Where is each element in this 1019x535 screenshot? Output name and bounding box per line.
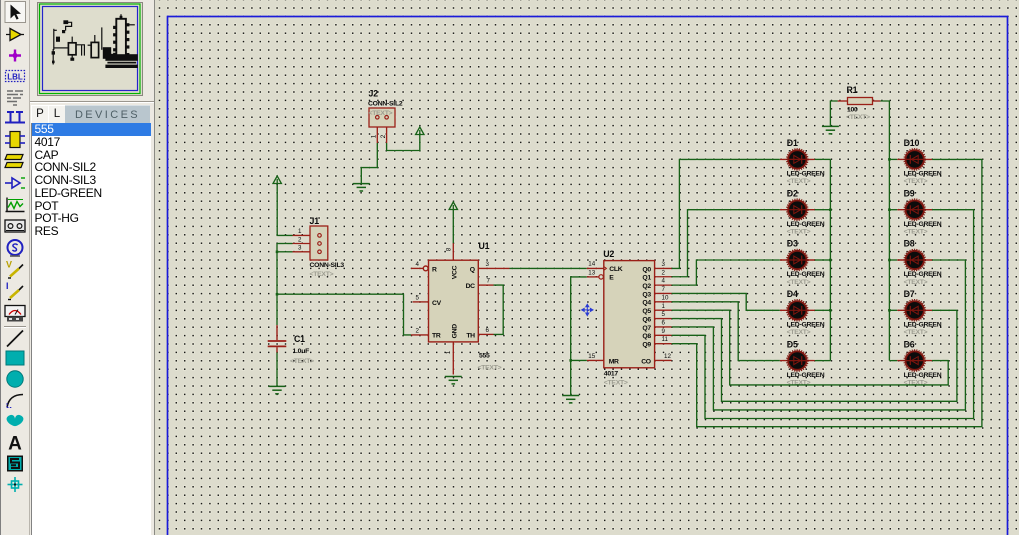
- svg-text:Q9: Q9: [642, 342, 651, 349]
- svg-text:5: 5: [662, 311, 666, 318]
- svg-text:U2: U2: [603, 249, 614, 259]
- svg-text:7: 7: [487, 278, 491, 285]
- svg-text:V: V: [6, 260, 12, 270]
- svg-text:D6: D6: [904, 339, 915, 349]
- toolbar instrument tool: [5, 306, 25, 322]
- LED D10: [897, 149, 932, 170]
- svg-text:MR: MR: [609, 358, 619, 365]
- U2 Q1 lead: [655, 276, 672, 278]
- svg-text:<TEXT>: <TEXT>: [787, 279, 811, 286]
- U2 CLK clock symbol: [604, 267, 607, 271]
- LED D3: [780, 249, 815, 270]
- toolbar bus tool: [5, 112, 25, 123]
- U2 Q6 lead: [655, 318, 672, 320]
- svg-text:LED-GREEN: LED-GREEN: [904, 271, 942, 278]
- U1 CV lead: [413, 301, 429, 303]
- ground R1: [822, 126, 839, 133]
- svg-text:LED-GREEN: LED-GREEN: [787, 271, 825, 278]
- wire U2 MR stub: [571, 359, 587, 361]
- LED D1: [780, 149, 815, 170]
- U2 CO lead: [655, 359, 672, 361]
- svg-text:U1: U1: [479, 241, 490, 251]
- ground U1: [445, 377, 462, 384]
- U1 DC lead: [478, 284, 493, 286]
- J2 pin2 lead: [386, 127, 388, 143]
- overview mini schematic: [52, 14, 138, 68]
- svg-text:14: 14: [588, 261, 595, 268]
- svg-text:J1: J1: [310, 216, 320, 226]
- wire Q8 to D7: [672, 210, 974, 419]
- wire Q4 to D5: [672, 302, 780, 361]
- svg-text:6: 6: [486, 327, 490, 334]
- U2 Q9 lead: [655, 343, 672, 345]
- svg-text:3: 3: [486, 261, 490, 268]
- svg-text:D9: D9: [904, 188, 915, 198]
- wire left LED cathode bus: [829, 159, 831, 360]
- toolbar junction dot tool: [9, 50, 21, 62]
- svg-text:LED-GREEN: LED-GREEN: [787, 372, 825, 379]
- svg-text:LBL: LBL: [7, 73, 23, 82]
- U2 Q7 lead: [655, 326, 672, 328]
- J1 pin2 lead: [293, 243, 311, 245]
- toolbar marker tool: [8, 477, 23, 492]
- U2 Q2 lead: [655, 284, 672, 286]
- wire Q2 to D3: [672, 260, 780, 285]
- U2 CLK lead: [587, 267, 604, 269]
- svg-text:Q8: Q8: [642, 333, 651, 340]
- svg-text:LED-GREEN: LED-GREEN: [787, 171, 825, 178]
- svg-text:2: 2: [298, 236, 302, 243]
- wire D2 cathode: [815, 209, 831, 211]
- wire Q6 to D9: [672, 310, 957, 401]
- svg-text:D5: D5: [787, 339, 798, 349]
- LED D8: [897, 249, 932, 270]
- sheet border: [168, 17, 1008, 535]
- junction cathode bus D3: [829, 259, 832, 262]
- U2 Q5 lead: [655, 309, 672, 311]
- wire Q3 to D4: [672, 293, 780, 310]
- toolbar 2d text tool: [8, 434, 22, 455]
- svg-text:<TEXT>: <TEXT>: [787, 329, 811, 336]
- U2 E lead: [587, 276, 599, 278]
- ground C1: [269, 386, 286, 393]
- U2 Q8 lead: [655, 334, 672, 336]
- toolbar 2d arc tool: [7, 395, 23, 408]
- svg-text:<TEXT>: <TEXT>: [604, 379, 628, 386]
- toolbar device pin tool: [5, 178, 25, 188]
- svg-text:3: 3: [298, 245, 302, 252]
- svg-text:D2: D2: [787, 188, 798, 198]
- junction R1 bus D10: [888, 158, 891, 161]
- svg-text:Q3: Q3: [642, 291, 651, 298]
- wire D10 left stub: [889, 158, 897, 160]
- overview green frame: [40, 4, 141, 94]
- power arrow J1: [273, 176, 281, 184]
- svg-text:CONN-SIL2: CONN-SIL2: [368, 101, 403, 108]
- connector J1: [310, 226, 328, 260]
- svg-text:11: 11: [662, 336, 669, 343]
- svg-text:Q2: Q2: [642, 283, 651, 290]
- svg-text:DC: DC: [466, 283, 476, 290]
- svg-text:<TEXT>: <TEXT>: [904, 178, 928, 185]
- svg-text:GND: GND: [451, 324, 458, 339]
- svg-text:Q7: Q7: [642, 325, 651, 332]
- svg-text:1: 1: [445, 350, 452, 354]
- svg-text:LED-GREEN: LED-GREEN: [904, 322, 942, 329]
- wire R1 to LED anode bus: [880, 101, 889, 361]
- svg-text:R1: R1: [847, 85, 858, 95]
- toolbar symbol tool: [7, 456, 23, 472]
- svg-text:4017: 4017: [604, 371, 619, 378]
- wire Q7 to D8: [672, 260, 966, 410]
- svg-text:5: 5: [416, 294, 420, 301]
- wire Q5 to D10: [672, 310, 949, 385]
- R1 left lead: [838, 100, 848, 102]
- LED D9: [897, 199, 932, 220]
- U1 TR lead: [411, 334, 429, 336]
- svg-text:D1: D1: [787, 138, 798, 148]
- wire U1 Q to U2 CLK: [510, 267, 587, 269]
- svg-text:4: 4: [416, 261, 420, 268]
- svg-text:Q1: Q1: [642, 275, 651, 282]
- capacitor C1: [268, 325, 287, 352]
- P button: [31, 105, 49, 125]
- wire J1 pin2: [277, 243, 293, 245]
- svg-text:D3: D3: [787, 239, 798, 249]
- svg-text:9: 9: [662, 328, 666, 335]
- svg-text:C1: C1: [294, 334, 305, 344]
- svg-text:10: 10: [662, 294, 669, 301]
- resistor R1: [848, 98, 873, 105]
- svg-text:4: 4: [662, 278, 666, 285]
- U2 MR lead: [587, 359, 604, 361]
- junction cathode bus D4: [829, 309, 832, 312]
- R1 right lead: [873, 100, 881, 102]
- svg-text:R: R: [432, 266, 437, 273]
- wire U2 E to ground net: [571, 277, 587, 395]
- U2 Q4 lead: [655, 301, 672, 303]
- junction J1 pin3 node: [276, 251, 279, 254]
- svg-text:100: 100: [847, 107, 858, 114]
- U1 Q lead: [478, 267, 509, 269]
- wire D5 cathode: [815, 360, 831, 362]
- op-amp U1 555 body: [429, 260, 479, 342]
- toolbar text script tool: [7, 91, 23, 105]
- svg-text:1: 1: [298, 228, 302, 235]
- svg-text:LED-GREEN: LED-GREEN: [787, 221, 825, 228]
- wire U1 VCC to power: [452, 210, 454, 243]
- wire Q1 to D2: [672, 210, 780, 277]
- svg-text:1: 1: [371, 134, 378, 138]
- IC U2 4017 body: [604, 261, 655, 368]
- LED D5: [780, 350, 815, 371]
- wire Q0 to D1: [672, 159, 780, 268]
- svg-text:VCC: VCC: [451, 265, 458, 279]
- svg-text:7: 7: [662, 286, 666, 293]
- wire J2 pin2 to power: [387, 135, 420, 151]
- svg-text:1: 1: [662, 303, 666, 310]
- junction TR branch node: [276, 293, 279, 296]
- svg-text:2: 2: [662, 269, 666, 276]
- svg-text:<TEXT>: <TEXT>: [846, 114, 870, 121]
- wire D3 cathode: [815, 259, 831, 261]
- wire Q9 to D6: [672, 159, 982, 426]
- toolbar 2d circle tool: [7, 371, 23, 387]
- LED D7: [897, 300, 932, 321]
- LED D2: [780, 199, 815, 220]
- svg-text:<TEXT>: <TEXT>: [904, 279, 928, 286]
- power arrow J2: [416, 127, 424, 135]
- toolbar select arrow: [5, 2, 26, 23]
- U1 TH lead: [478, 333, 493, 335]
- wire J1 pin3: [277, 251, 293, 253]
- wire J1 to C1 vertical: [276, 244, 278, 326]
- svg-text:1.0uF: 1.0uF: [293, 348, 310, 355]
- L button: [48, 105, 66, 125]
- svg-text:D7: D7: [904, 289, 915, 299]
- svg-text:12: 12: [664, 353, 671, 360]
- svg-text:Q0: Q0: [642, 266, 651, 273]
- svg-text:15: 15: [588, 353, 595, 360]
- svg-text:CLK: CLK: [609, 266, 622, 273]
- svg-text:Q5: Q5: [642, 308, 651, 315]
- LED D6: [897, 350, 932, 371]
- wire D8 left stub: [889, 259, 897, 261]
- junction R1 bus D7: [888, 309, 891, 312]
- svg-text:<TEXT>: <TEXT>: [290, 358, 314, 365]
- toolbar component tool: [5, 132, 25, 148]
- svg-text:<TEXT>: <TEXT>: [787, 229, 811, 236]
- svg-text:LED-GREEN: LED-GREEN: [787, 322, 825, 329]
- wire D6 left stub: [889, 360, 897, 362]
- svg-text:3: 3: [662, 261, 666, 268]
- toolbar tape recorder tool: [5, 220, 25, 232]
- svg-text:CO: CO: [641, 358, 651, 365]
- svg-text:LED-GREEN: LED-GREEN: [904, 221, 942, 228]
- junction cathode bus D2: [829, 208, 832, 211]
- U2 Q3 lead: [655, 292, 672, 294]
- toolbar separator: [4, 326, 26, 328]
- toolbar subcircuit tool: [5, 155, 23, 168]
- wire D1 cathode: [815, 158, 831, 160]
- LED D4: [780, 300, 815, 321]
- toolbar voltage probe tool: [6, 260, 23, 279]
- wire R1 to ground: [830, 101, 837, 126]
- toolbar 2d box tool: [6, 351, 24, 365]
- svg-text:<TEXT>: <TEXT>: [369, 110, 393, 117]
- wire J2 pin1 to ground: [361, 143, 377, 183]
- ground U2: [562, 396, 579, 403]
- wire node to U1 TR: [277, 294, 411, 335]
- svg-text:CONN-SIL3: CONN-SIL3: [310, 262, 345, 269]
- J2 pin1 lead: [376, 127, 378, 143]
- svg-text:6: 6: [662, 320, 666, 327]
- svg-text:J2: J2: [369, 89, 379, 99]
- svg-text:TH: TH: [466, 332, 475, 339]
- wire D7 left stub: [889, 309, 897, 311]
- junction U2 MR node: [569, 359, 572, 362]
- devices list: [31, 123, 151, 535]
- wire D9 left stub: [889, 209, 897, 211]
- svg-text:555: 555: [479, 353, 490, 360]
- toolbar wire tool: [6, 29, 24, 41]
- toolbar wire label tool: [6, 71, 25, 82]
- junction R1 bus D9: [888, 208, 891, 211]
- svg-text:TR: TR: [432, 332, 441, 339]
- svg-text:<TEXT>: <TEXT>: [310, 271, 334, 278]
- toolbar 2d line tool: [7, 331, 23, 347]
- svg-text:LED-GREEN: LED-GREEN: [904, 171, 942, 178]
- J1 pin1 lead: [293, 234, 311, 236]
- svg-text:13: 13: [588, 269, 595, 276]
- svg-text:LED-GREEN: LED-GREEN: [904, 372, 942, 379]
- U1 GND lead: [452, 342, 454, 375]
- svg-text:D8: D8: [904, 239, 915, 249]
- svg-text:2: 2: [416, 327, 420, 334]
- junction R1 bus D8: [888, 259, 891, 262]
- svg-text:I: I: [6, 281, 9, 291]
- svg-text:D4: D4: [787, 289, 798, 299]
- U2 Q0 lead: [655, 267, 672, 269]
- toolbar current probe tool: [6, 281, 23, 300]
- svg-text:CV: CV: [432, 300, 442, 307]
- power arrow U1 VCC: [449, 202, 457, 210]
- DEVICES header: [65, 105, 150, 124]
- J1 pin3 lead: [293, 251, 311, 253]
- wire power to J1 pin1: [277, 185, 292, 235]
- wire D4 cathode: [815, 309, 831, 311]
- svg-text:2: 2: [380, 134, 387, 138]
- U1 R lead: [411, 267, 423, 269]
- origin marker: [582, 304, 593, 315]
- svg-text:8: 8: [445, 247, 452, 251]
- svg-text:<TEXT>: <TEXT>: [904, 229, 928, 236]
- wire U1 DC to TH: [494, 285, 504, 334]
- svg-text:D10: D10: [904, 138, 920, 148]
- overview blue frame: [43, 7, 138, 91]
- svg-text:<TEXT>: <TEXT>: [478, 365, 502, 372]
- connector J2: [369, 108, 395, 127]
- U1 VCC lead: [452, 243, 454, 260]
- toolbar graph tool: [6, 198, 25, 212]
- svg-text:A: A: [8, 434, 22, 455]
- ground J2: [353, 184, 370, 191]
- svg-text:Q4: Q4: [642, 300, 651, 307]
- toolbar 2d path tool: [7, 415, 24, 426]
- svg-text:Q6: Q6: [642, 316, 651, 323]
- svg-text:<TEXT>: <TEXT>: [787, 178, 811, 185]
- toolbar generator tool: [8, 240, 23, 256]
- wire C1 to ground: [276, 353, 278, 387]
- svg-text:Q: Q: [470, 266, 475, 273]
- svg-text:<TEXT>: <TEXT>: [904, 329, 928, 336]
